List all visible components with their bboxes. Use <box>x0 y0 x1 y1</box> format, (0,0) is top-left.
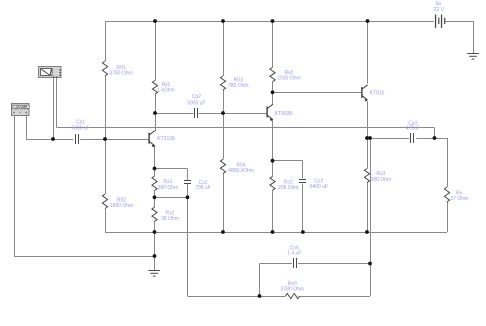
svg-text:KT815: KT815 <box>370 91 385 97</box>
svg-text:1.4 uF: 1.4 uF <box>287 250 301 256</box>
svg-text:380 Ohm: 380 Ohm <box>158 185 179 191</box>
svg-text:Cр1: Cр1 <box>76 119 85 125</box>
svg-text:22 V: 22 V <box>434 7 445 13</box>
svg-text:5000 uF: 5000 uF <box>187 101 205 107</box>
svg-text:3780 Ohm: 3780 Ohm <box>109 71 132 77</box>
svg-text:1 kOhm: 1 kOhm <box>157 88 175 94</box>
svg-text:680 Ohm: 680 Ohm <box>371 177 392 183</box>
svg-text:780 Ohm: 780 Ohm <box>228 83 249 89</box>
svg-text:37 Ohm: 37 Ohm <box>450 196 468 202</box>
svg-text:1500 Ohm: 1500 Ohm <box>277 76 300 82</box>
svg-text:708 uF: 708 uF <box>195 185 211 191</box>
svg-text:KT315Б: KT315Б <box>157 136 176 142</box>
svg-text:KT903Б: KT903Б <box>275 111 294 117</box>
svg-text:470uF: 470uF <box>406 126 420 132</box>
svg-text:208 Ohm: 208 Ohm <box>278 185 299 191</box>
svg-text:5000 uF: 5000 uF <box>71 126 89 132</box>
svg-text:4800 kOhm: 4800 kOhm <box>228 168 254 174</box>
svg-text:6400 uF: 6400 uF <box>310 184 328 190</box>
svg-text:38 Ohm: 38 Ohm <box>161 216 179 222</box>
svg-text:Cр2: Cр2 <box>192 94 201 100</box>
svg-text:3780 Ohm: 3780 Ohm <box>281 286 304 292</box>
svg-text:1880 Ohm: 1880 Ohm <box>110 203 133 209</box>
